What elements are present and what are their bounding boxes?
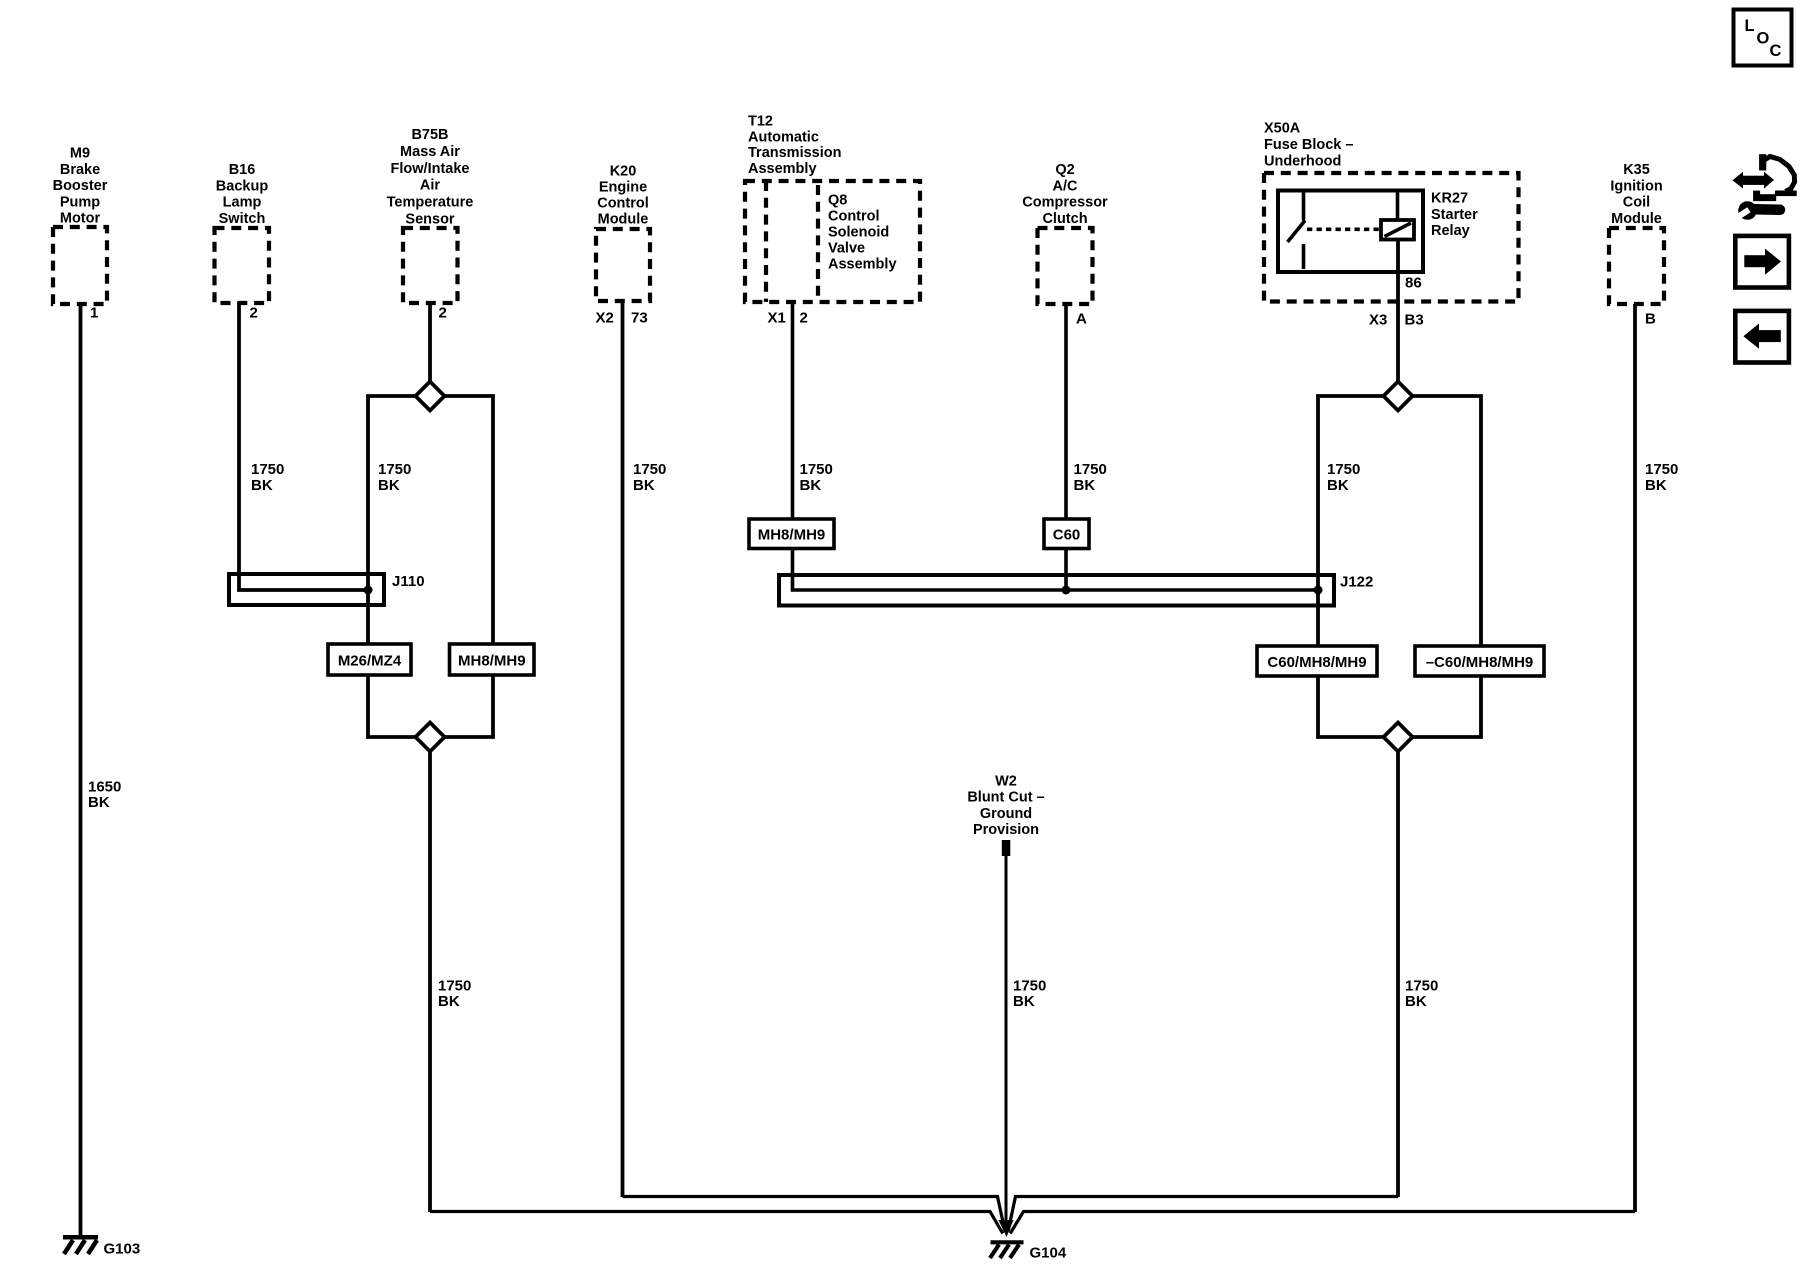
svg-text:Air: Air [420, 178, 441, 194]
svg-text:Control: Control [828, 208, 880, 224]
svg-text:Pump: Pump [60, 194, 100, 210]
svg-text:Engine: Engine [599, 180, 647, 196]
svg-text:B: B [1645, 311, 1656, 328]
svg-text:Q8: Q8 [828, 192, 847, 208]
svg-text:Clutch: Clutch [1042, 211, 1087, 227]
svg-text:Fuse Block –: Fuse Block – [1264, 137, 1353, 153]
svg-text:–C60/MH8/MH9: –C60/MH8/MH9 [1426, 654, 1534, 671]
svg-text:K20: K20 [610, 164, 637, 180]
svg-text:M9: M9 [70, 146, 90, 162]
svg-text:X50A: X50A [1264, 120, 1301, 136]
svg-text:W2: W2 [995, 773, 1017, 789]
svg-text:BK: BK [1013, 993, 1035, 1010]
svg-text:1650: 1650 [88, 778, 121, 795]
svg-text:Q2: Q2 [1055, 162, 1074, 178]
svg-text:Flow/Intake: Flow/Intake [391, 161, 470, 177]
svg-text:1750: 1750 [378, 461, 411, 478]
svg-text:1750: 1750 [1327, 461, 1360, 478]
svg-text:BK: BK [251, 477, 273, 494]
svg-text:BK: BK [438, 993, 460, 1010]
svg-text:X1: X1 [768, 310, 786, 327]
svg-text:BK: BK [1327, 477, 1349, 494]
svg-text:KR27: KR27 [1431, 191, 1468, 207]
svg-text:Coil: Coil [1623, 195, 1650, 211]
svg-text:X2: X2 [596, 310, 614, 327]
svg-text:Mass Air: Mass Air [400, 144, 460, 160]
svg-text:1750: 1750 [1013, 977, 1046, 994]
svg-text:B16: B16 [229, 162, 256, 178]
svg-text:Relay: Relay [1431, 223, 1470, 239]
svg-text:Ignition: Ignition [1610, 178, 1662, 194]
svg-text:1750: 1750 [251, 461, 284, 478]
svg-text:Motor: Motor [60, 211, 101, 227]
svg-text:Module: Module [598, 212, 649, 228]
svg-text:Assembly: Assembly [828, 256, 897, 272]
svg-text:C60/MH8/MH9: C60/MH8/MH9 [1267, 654, 1366, 671]
svg-text:Provision: Provision [973, 822, 1039, 838]
svg-text:Valve: Valve [828, 240, 865, 256]
svg-text:Module: Module [1611, 211, 1662, 227]
svg-text:MH8/MH9: MH8/MH9 [758, 527, 826, 544]
svg-text:Underhood: Underhood [1264, 153, 1341, 169]
svg-text:G104: G104 [1030, 1245, 1067, 1262]
svg-text:BK: BK [88, 794, 110, 811]
svg-text:Booster: Booster [53, 178, 108, 194]
svg-text:BK: BK [1074, 477, 1096, 494]
svg-text:C60: C60 [1053, 527, 1081, 544]
svg-text:MH8/MH9: MH8/MH9 [458, 653, 526, 670]
svg-text:B3: B3 [1405, 312, 1424, 329]
svg-text:Solenoid: Solenoid [828, 224, 889, 240]
svg-text:1750: 1750 [633, 461, 666, 478]
svg-text:Switch: Switch [219, 211, 266, 227]
svg-text:Transmission: Transmission [748, 145, 841, 161]
svg-text:Ground: Ground [980, 806, 1032, 822]
svg-text:1750: 1750 [800, 461, 833, 478]
svg-text:Lamp: Lamp [223, 195, 262, 211]
svg-text:A/C: A/C [1053, 178, 1079, 194]
svg-text:BK: BK [1645, 477, 1667, 494]
svg-text:J122: J122 [1340, 574, 1373, 591]
svg-text:2: 2 [800, 310, 808, 327]
svg-text:Starter: Starter [1431, 207, 1478, 223]
svg-text:Automatic: Automatic [748, 129, 819, 145]
svg-text:M26/MZ4: M26/MZ4 [338, 653, 402, 670]
svg-text:Sensor: Sensor [405, 212, 455, 228]
svg-text:A: A [1076, 311, 1087, 328]
svg-text:L: L [1745, 17, 1755, 35]
svg-text:J110: J110 [392, 573, 425, 590]
svg-text:X3: X3 [1369, 312, 1387, 329]
svg-text:Brake: Brake [60, 162, 100, 178]
svg-text:1750: 1750 [1405, 977, 1438, 994]
svg-text:Backup: Backup [216, 178, 269, 194]
svg-text:73: 73 [631, 310, 648, 327]
svg-text:Compressor: Compressor [1022, 195, 1108, 211]
svg-text:BK: BK [378, 477, 400, 494]
svg-text:G103: G103 [104, 1241, 141, 1258]
svg-text:1750: 1750 [1074, 461, 1107, 478]
svg-text:2: 2 [439, 305, 447, 322]
svg-text:Blunt Cut –: Blunt Cut – [967, 790, 1044, 806]
svg-text:1: 1 [90, 305, 98, 322]
svg-text:BK: BK [633, 477, 655, 494]
svg-text:86: 86 [1405, 275, 1422, 292]
svg-text:Assembly: Assembly [748, 161, 817, 177]
svg-text:Control: Control [597, 196, 649, 212]
svg-text:BK: BK [1405, 993, 1427, 1010]
svg-text:T12: T12 [748, 114, 773, 130]
svg-text:2: 2 [250, 305, 258, 322]
svg-text:Temperature: Temperature [387, 195, 474, 211]
svg-text:C: C [1770, 42, 1782, 60]
svg-text:1750: 1750 [1645, 461, 1678, 478]
svg-text:1750: 1750 [438, 977, 471, 994]
svg-text:B75B: B75B [411, 127, 448, 143]
svg-text:K35: K35 [1623, 162, 1650, 178]
svg-text:O: O [1757, 30, 1770, 48]
svg-text:BK: BK [800, 477, 822, 494]
